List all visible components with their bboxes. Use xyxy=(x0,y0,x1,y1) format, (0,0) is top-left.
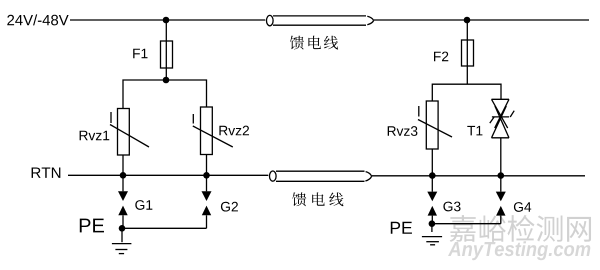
junction J2 (F1 bottom) xyxy=(163,77,170,84)
junction J3 (F2 top) xyxy=(464,17,471,24)
watermark 嘉峪检测网 xyxy=(450,215,591,242)
varistor Rvz3 xyxy=(418,101,452,149)
gas discharge tube G4 xyxy=(496,176,506,224)
wire PE left xyxy=(122,227,207,229)
fuse F1 xyxy=(161,41,173,68)
label G1 xyxy=(135,200,152,210)
wire Rvz1 to RTN xyxy=(122,155,124,175)
wire RTN rail right xyxy=(372,175,585,177)
gas discharge tube G3 xyxy=(427,176,437,224)
gas discharge tube G1 xyxy=(118,175,128,228)
label F2 xyxy=(434,52,448,62)
junction J4 (Rvz1/RTN) xyxy=(120,172,127,179)
thyristor surge suppressor T1 xyxy=(490,99,514,138)
ground PE left xyxy=(112,228,131,253)
varistor Rvz2 xyxy=(193,107,233,155)
wire T1 to RTN xyxy=(500,138,502,176)
label Rvz1 xyxy=(80,131,110,140)
node 24V/-48V xyxy=(7,14,68,25)
wire RTN rail left xyxy=(68,174,268,176)
wire branch below F2 xyxy=(432,84,501,101)
label feed-line bottom (馈电线) xyxy=(292,192,343,206)
label F1 xyxy=(133,49,147,58)
junction PE left xyxy=(119,225,126,232)
wire 24V rail right xyxy=(374,19,589,21)
label G2 xyxy=(221,202,238,212)
wire PE right xyxy=(432,223,501,225)
label G3 xyxy=(443,202,460,212)
ground PE right xyxy=(422,224,442,245)
label Rvz2 xyxy=(219,126,249,136)
fuse F2 xyxy=(462,40,474,66)
junction J5 (Rvz2/RTN) xyxy=(203,172,210,179)
junction J1 (F1 top) xyxy=(163,17,170,24)
label feed-line top (馈电线) xyxy=(290,36,338,50)
node RTN xyxy=(32,167,61,177)
watermark AnyTesting.com xyxy=(448,241,590,260)
wire branch below F1 xyxy=(123,80,207,109)
label T1 xyxy=(467,126,482,135)
gas discharge tube G2 xyxy=(202,175,212,228)
label PE right xyxy=(391,222,412,234)
cable (feed line) bottom xyxy=(270,171,372,181)
label Rvz3 xyxy=(388,126,418,136)
wire Rvz3 to RTN xyxy=(431,149,433,176)
wire Rvz2 to RTN xyxy=(206,155,208,176)
wire 24V rail left xyxy=(70,19,265,21)
wire F1 column xyxy=(165,20,167,80)
junction J6 (Rvz3/RTN) xyxy=(429,172,436,179)
label G4 xyxy=(514,202,531,212)
junction PE right xyxy=(429,220,436,227)
cable (feed line) top xyxy=(267,15,374,25)
junction J7 (T1/RTN) xyxy=(498,172,505,179)
label PE left xyxy=(80,219,104,233)
wire F2 column xyxy=(466,20,468,84)
varistor Rvz1 xyxy=(110,109,149,156)
